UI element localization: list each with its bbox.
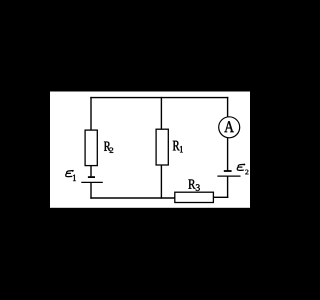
wire bottom bus <box>90 197 175 199</box>
wire middle branch upper <box>160 97 162 129</box>
label E1 subscript 1 <box>73 175 76 181</box>
wire right branch upper <box>227 97 229 117</box>
label R3 letter R <box>188 179 195 188</box>
label R2 letter R <box>104 142 111 151</box>
wire middle branch lower <box>160 165 162 199</box>
label E2 subscript 2 <box>245 170 248 175</box>
battery E1 long plate <box>81 181 103 183</box>
resistor R1 <box>156 129 168 165</box>
schematic panel background <box>50 92 250 208</box>
battery E2 long plate <box>217 175 240 177</box>
ammeter A letter <box>224 121 234 132</box>
wire top bus <box>90 97 228 99</box>
label R1 letter R <box>173 141 180 151</box>
wire R2 to E1 <box>90 166 92 178</box>
ammeter A body <box>219 117 240 138</box>
label R2 subscript 2 <box>110 148 114 153</box>
resistor R3 <box>175 192 214 202</box>
label EMF E1 script glyph <box>66 170 74 176</box>
resistor R2 <box>85 130 97 166</box>
wire ammeter to E2 <box>227 138 229 172</box>
wire E1 to bottom bus <box>90 182 92 198</box>
battery E2 short plate <box>224 170 232 172</box>
battery E1 short plate <box>88 176 95 178</box>
wire left branch upper <box>90 97 92 130</box>
label R1 subscript 1 <box>180 146 183 152</box>
label EMF E2 script glyph <box>237 164 245 170</box>
wire bottom right segment <box>213 196 228 198</box>
wire E2 to bottom <box>227 176 229 198</box>
label R3 subscript 3 <box>196 184 200 191</box>
